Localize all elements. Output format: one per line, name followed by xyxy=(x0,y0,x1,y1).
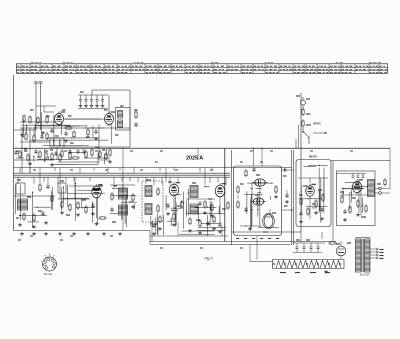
svg-text:B 1/2 B4: B 1/2 B4 xyxy=(360,274,370,277)
svg-text:Fig.3: Fig.3 xyxy=(205,256,213,260)
svg-text:2025 A: 2025 A xyxy=(186,156,203,162)
svg-text:B4 P2: B4 P2 xyxy=(314,121,322,125)
svg-text:B6 P2: B6 P2 xyxy=(309,155,317,159)
svg-text:B7 max: B7 max xyxy=(44,273,53,276)
